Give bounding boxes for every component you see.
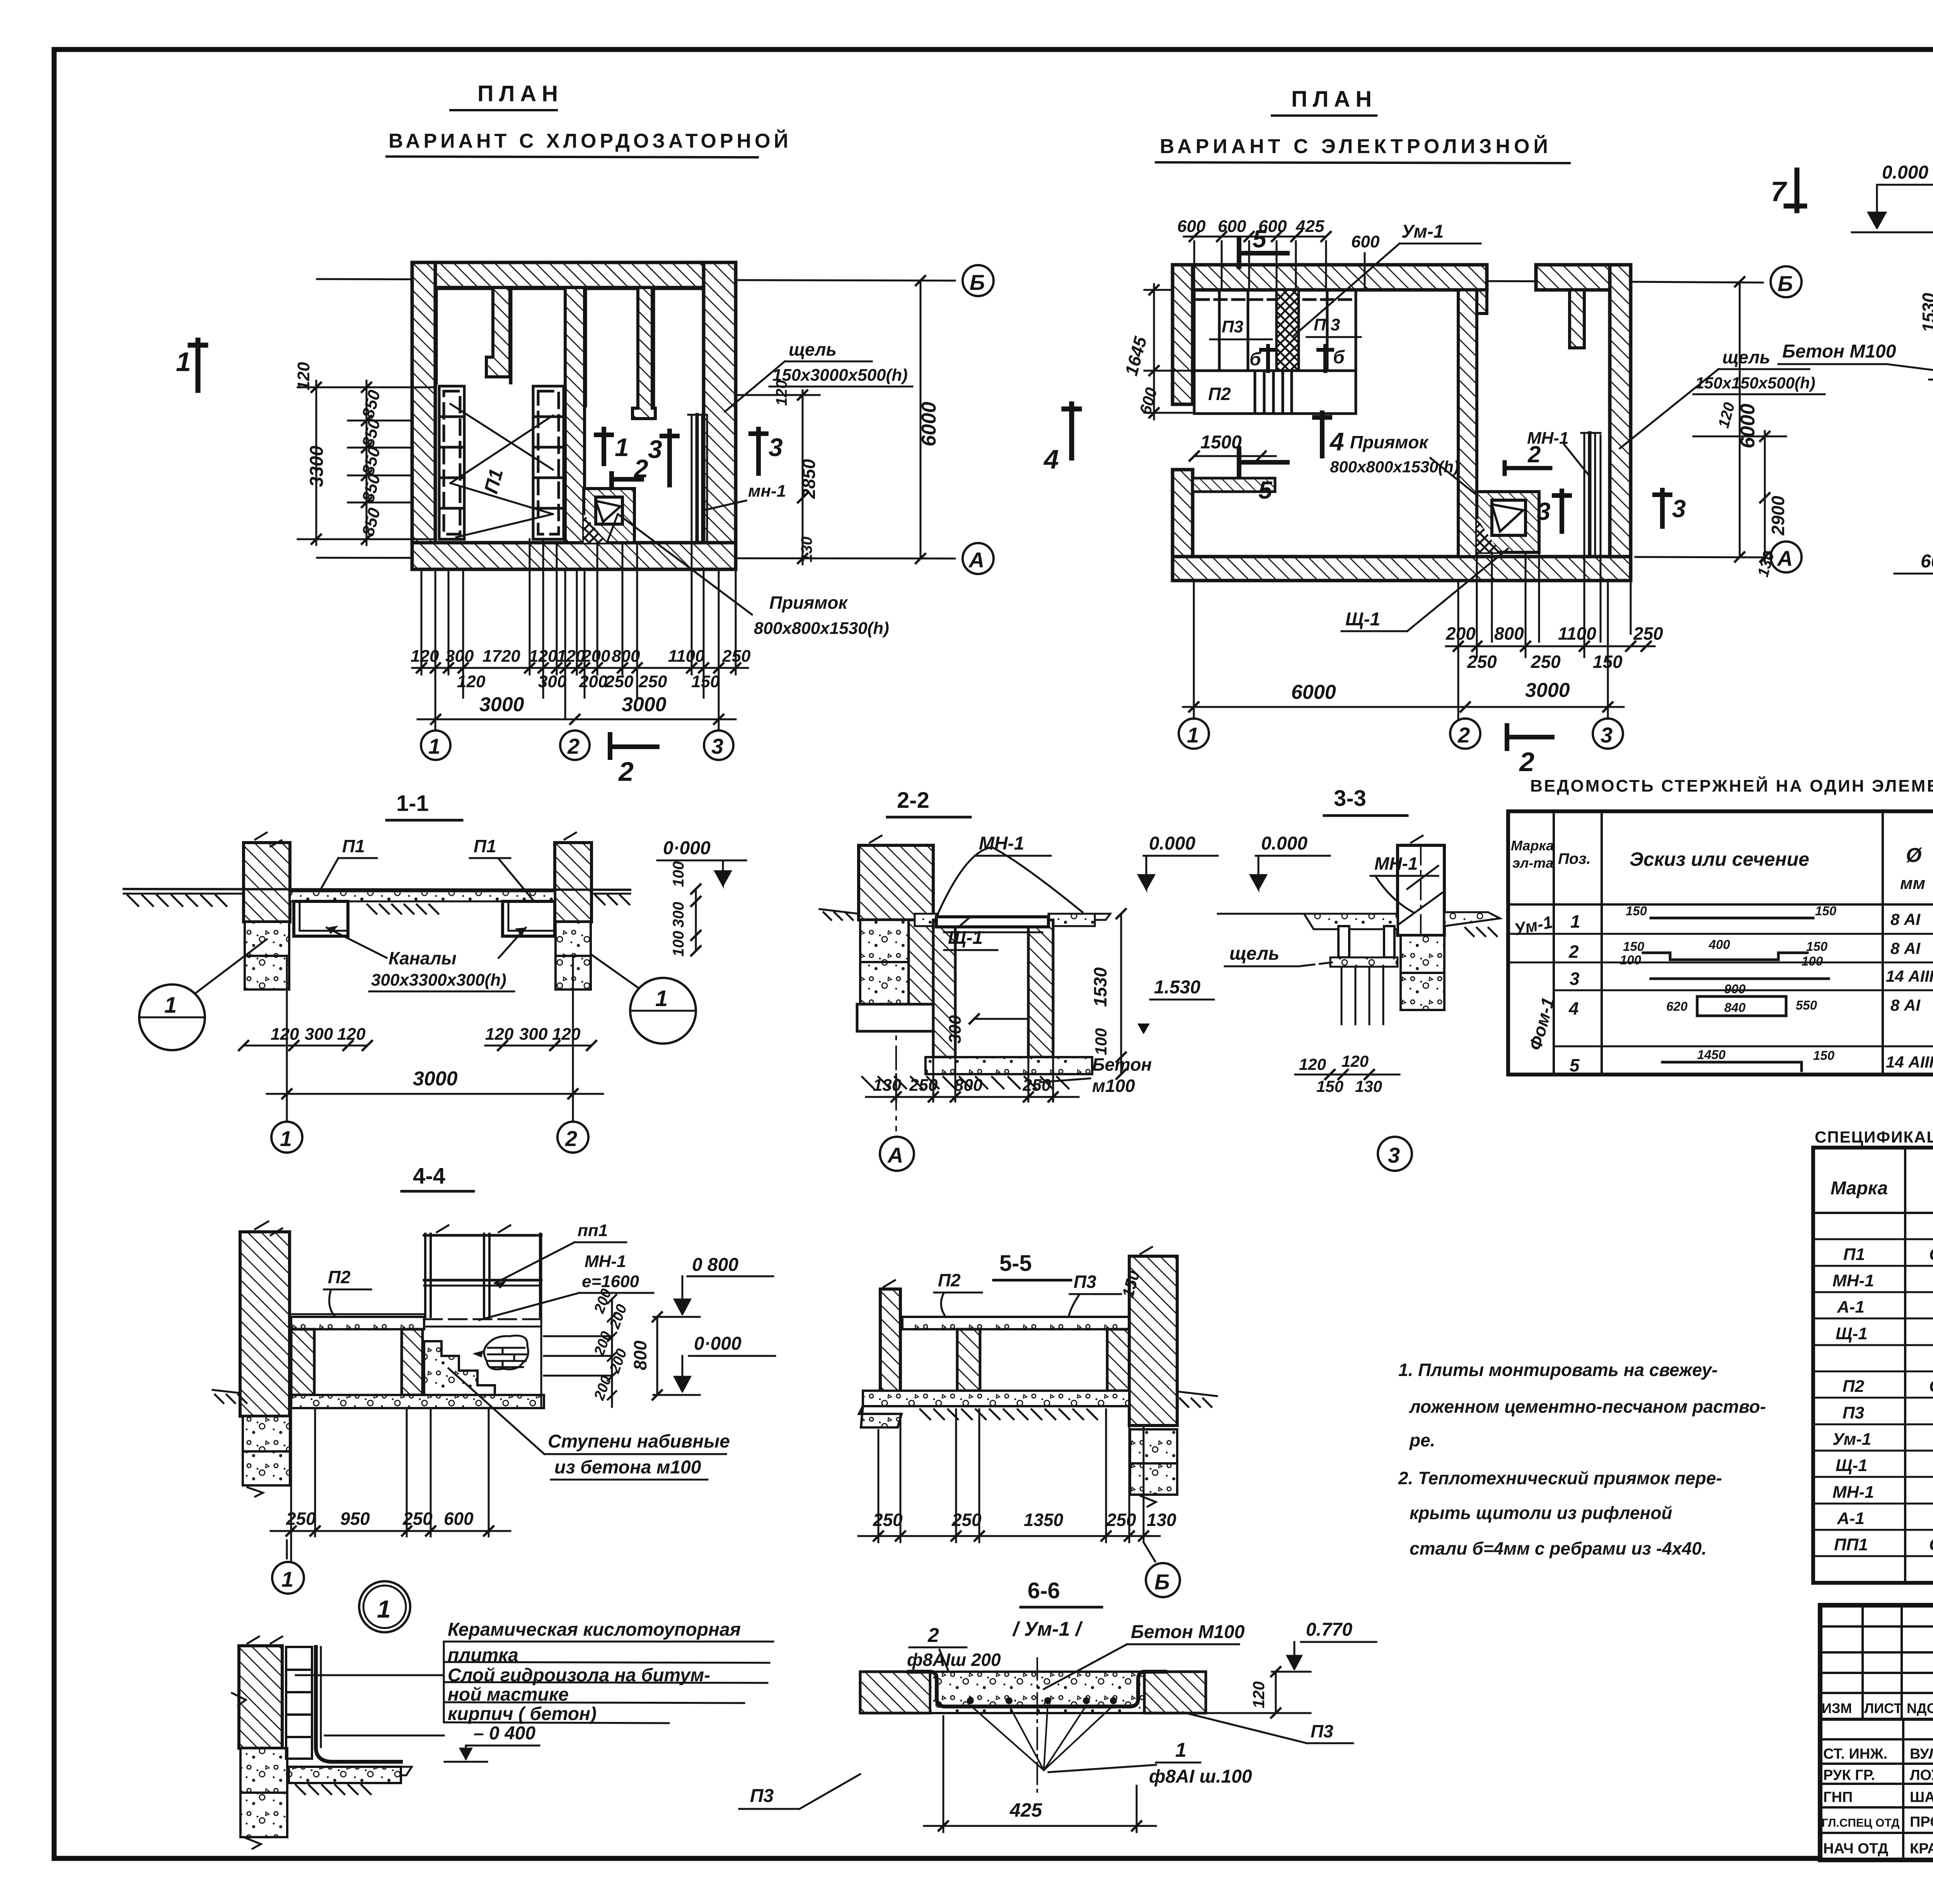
- top dims plan2: [1177, 217, 1380, 251]
- section mark 1 left outside: [583, 336, 584, 337]
- svg-text:ф8АIш 200: ф8АIш 200: [907, 1650, 1001, 1670]
- detail bubble left: [139, 984, 205, 1050]
- wall bottom band: [412, 543, 736, 569]
- partition tooth A: [486, 288, 510, 377]
- axis circle 3: [1378, 1137, 1412, 1171]
- dim numbers row2: [457, 672, 720, 691]
- svg-text:120: 120: [529, 647, 557, 666]
- sketches: [1643, 918, 1829, 1071]
- 2 section flag below plan2: [1507, 725, 1552, 749]
- svg-text:130: 130: [1355, 1077, 1382, 1095]
- svg-text:150: 150: [1593, 652, 1623, 672]
- wall right: [704, 262, 736, 569]
- svg-text:600: 600: [1218, 217, 1246, 236]
- svg-text:120: 120: [1299, 1055, 1326, 1073]
- svg-text:Ум-1: Ум-1: [1832, 1430, 1871, 1449]
- right big wall: [1129, 1256, 1177, 1425]
- svg-text:300: 300: [305, 1025, 333, 1044]
- floor slab: [289, 1767, 401, 1783]
- svg-text:120: 120: [1249, 1681, 1268, 1708]
- left wall concrete below: [243, 1416, 290, 1451]
- svg-text:2: 2: [618, 756, 634, 787]
- svg-text:Бетон: Бетон: [1092, 1054, 1152, 1075]
- svg-text:П 3: П 3: [1314, 315, 1340, 334]
- svg-text:б: б: [1333, 347, 1345, 368]
- left pier inner strip: [909, 920, 933, 1004]
- svg-text:ПП1: ПП1: [1834, 1535, 1868, 1554]
- wall top band: [412, 262, 736, 288]
- 3000 dim: [267, 956, 603, 1121]
- svg-text:1. Плиты монтировать на све: 1. Плиты монтировать на свежеу-: [1398, 1360, 1718, 1380]
- section flag 3 left: [662, 431, 677, 485]
- left dim extension lines: [298, 381, 435, 545]
- canal box left: [294, 901, 348, 936]
- svg-text:ГНП: ГНП: [1823, 1789, 1853, 1805]
- right wall concrete below: [1130, 1429, 1177, 1463]
- axis circle 1: [286, 1540, 288, 1558]
- svg-text:0.770: 0.770: [1306, 1620, 1352, 1640]
- svg-text:1100: 1100: [1558, 623, 1596, 644]
- axis circle 2: [560, 731, 590, 760]
- МН-1 channel lines: [688, 415, 707, 543]
- svg-text:стали б=4мм с ребрами из -: стали б=4мм с ребрами из -4х40.: [1410, 1538, 1706, 1558]
- svg-text:ре.: ре.: [1409, 1430, 1435, 1450]
- svg-text:100: 100: [1802, 954, 1823, 968]
- svg-text:0 800: 0 800: [692, 1255, 738, 1275]
- щель box: [1338, 926, 1349, 957]
- svg-text:из бетона м100: из бетона м100: [554, 1457, 701, 1478]
- svg-text:ВУЛЬФ: ВУЛЬФ: [1910, 1746, 1933, 1762]
- svg-text:14 АIII: 14 АIII: [1886, 1053, 1933, 1071]
- left pier upper: [859, 845, 933, 920]
- svg-text:800х800х1530(h): 800х800х1530(h): [754, 619, 889, 638]
- svg-text:Щ-1: Щ-1: [1836, 1324, 1868, 1343]
- priyamok square plan2: [1477, 492, 1539, 552]
- svg-text:3: 3: [1570, 969, 1580, 989]
- svg-text:2: 2: [633, 454, 648, 483]
- slab left hatched part: [860, 1672, 930, 1713]
- svg-text:Приямок: Приямок: [1350, 432, 1429, 452]
- dims 120/2900/130 right of plan2: [1764, 431, 1766, 562]
- wall hatched: [239, 1646, 282, 1748]
- svg-text:Бетон М100: Бетон М100: [1131, 1622, 1245, 1642]
- svg-text:120: 120: [411, 647, 439, 666]
- svg-text:150: 150: [691, 672, 720, 691]
- svg-text:100: 100: [670, 931, 687, 957]
- svg-text:щель: щель: [789, 339, 837, 359]
- svg-text:ПЛАН: ПЛАН: [1291, 87, 1377, 112]
- svg-text:Серия ИС-01-04 вып 2: Серия ИС-01-04 вып 2: [1929, 1245, 1933, 1264]
- svg-text:Марка: Марка: [1511, 838, 1554, 853]
- svg-text:Ум-1: Ум-1: [1401, 221, 1444, 242]
- wall concrete below: [240, 1748, 287, 1793]
- svg-text:2: 2: [1568, 942, 1579, 962]
- svg-text:800: 800: [954, 1076, 983, 1095]
- svg-text:300: 300: [445, 647, 474, 666]
- svg-text:П1: П1: [342, 836, 365, 856]
- svg-text:А-1: А-1: [1837, 1509, 1865, 1528]
- svg-text:0.000: 0.000: [1149, 833, 1195, 854]
- Ум-1 monolith crosshatched cell: [1277, 290, 1299, 371]
- svg-text:Серия ИС-01-04 вып 2: Серия ИС-01-04 вып 2: [1929, 1377, 1933, 1396]
- svg-text:П3: П3: [1311, 1721, 1333, 1741]
- 5 section flag lower: [1239, 448, 1287, 475]
- bottom slab: [926, 1057, 1092, 1074]
- cells box top-left: [1194, 290, 1356, 371]
- left wall upper: [1173, 265, 1193, 404]
- brick lining courses: [286, 1647, 312, 1759]
- svg-text:130: 130: [1147, 1510, 1176, 1530]
- svg-text:3-3: 3-3: [1334, 786, 1366, 811]
- svg-text:2. Теплотехнический приямок: 2. Теплотехнический приямок пере-: [1398, 1468, 1722, 1488]
- svg-text:СПЕЦИФИКАЦИЯ ЭЛЕМЕНТОВ К МАРКИ: СПЕЦИФИКАЦИЯ ЭЛЕМЕНТОВ К МАРКИРОВОЧНОЙ С…: [1815, 1127, 1933, 1146]
- 4 section flag inside: [1314, 413, 1330, 456]
- svg-text:300: 300: [946, 1015, 965, 1044]
- svg-text:200: 200: [579, 672, 608, 691]
- svg-text:П2: П2: [328, 1267, 351, 1287]
- svg-text:МН-1: МН-1: [585, 1252, 626, 1271]
- svg-text:Ø: Ø: [1906, 844, 1923, 867]
- svg-text:мн-1: мн-1: [748, 482, 786, 501]
- svg-text:120: 120: [1342, 1052, 1369, 1070]
- railing posts ПП1: [424, 1234, 541, 1317]
- svg-text:Бетон М100: Бетон М100: [1782, 341, 1896, 362]
- wall left: [412, 262, 435, 569]
- floor strips: [915, 914, 938, 926]
- svg-text:П3: П3: [1074, 1272, 1096, 1292]
- axis line Б horizontal: [1630, 282, 1763, 283]
- svg-text:600: 600: [1177, 217, 1206, 236]
- svg-text:Керамическая кислотоупорная: Керамическая кислотоупорная: [448, 1620, 741, 1640]
- svg-text:МН-1: МН-1: [979, 833, 1024, 854]
- МН-1 mound curve: [938, 847, 1082, 914]
- svg-text:ЛОУЦКЕР: ЛОУЦКЕР: [1910, 1767, 1933, 1783]
- svg-text:8 АI: 8 АI: [1890, 996, 1921, 1014]
- svg-text:А: А: [887, 1143, 903, 1167]
- svg-text:А-1: А-1: [1837, 1298, 1865, 1316]
- axis circle 3: [704, 731, 733, 760]
- svg-text:2: 2: [1519, 747, 1534, 777]
- 6-6 center dash-dot line: [1036, 1658, 1038, 1793]
- svg-text:300: 300: [538, 672, 567, 691]
- axis circles: [271, 1122, 302, 1153]
- svg-text:Щ-1: Щ-1: [1836, 1456, 1868, 1475]
- fan leaders: [970, 1705, 1113, 1770]
- title plan 2: [1156, 87, 1570, 163]
- svg-text:ЛИСТ: ЛИСТ: [1864, 1700, 1902, 1716]
- svg-text:П2: П2: [938, 1270, 961, 1290]
- П2 room and stair: [1194, 371, 1356, 414]
- double circle detail 1: [359, 1581, 410, 1632]
- svg-text:3: 3: [711, 734, 723, 758]
- axis circle Б plan2: [1771, 266, 1802, 297]
- svg-text:3: 3: [1388, 1143, 1400, 1167]
- top wall band right chunk: [1536, 265, 1631, 290]
- svg-text:1: 1: [428, 734, 440, 758]
- svg-text:ВАРИАНТ С ХЛОРДОЗАТОРНОЙ: ВАРИАНТ С ХЛОРДОЗАТОРНОЙ: [389, 129, 792, 152]
- svg-text:120: 120: [552, 1025, 581, 1044]
- axis line А horizontal: [317, 558, 955, 559]
- floor right strip: [1444, 912, 1500, 926]
- lower slab 0.000: [863, 1391, 1129, 1406]
- svg-text:эл-та: эл-та: [1512, 855, 1553, 871]
- svg-text:Б: Б: [1154, 1570, 1170, 1594]
- svg-text:150: 150: [1813, 1048, 1835, 1063]
- svg-text:м100: м100: [1092, 1076, 1135, 1096]
- signature rows: [1822, 1746, 1933, 1857]
- svg-text:2: 2: [1527, 441, 1541, 467]
- svg-text:щель: щель: [1722, 347, 1770, 367]
- svg-text:600: 600: [1351, 232, 1380, 251]
- left wall: [880, 1289, 900, 1396]
- svg-text:250: 250: [605, 672, 634, 691]
- svg-text:Марка: Марка: [1831, 1178, 1888, 1199]
- svg-text:Б: Б: [1778, 271, 1793, 296]
- svg-text:130: 130: [798, 536, 815, 562]
- middle pier: [957, 1329, 980, 1391]
- svg-text:Серия 1.459-1 вып.2: Серия 1.459-1 вып.2: [1929, 1535, 1933, 1554]
- svg-text:Поз.: Поз.: [1558, 850, 1591, 867]
- svg-text:Щ-1: Щ-1: [948, 928, 983, 948]
- svg-text:П1: П1: [474, 836, 496, 856]
- diameters: [1886, 910, 1933, 1071]
- dims 4-4 below: [271, 1408, 510, 1536]
- svg-text:8 АI: 8 АI: [1890, 910, 1921, 928]
- svg-text:150: 150: [1806, 939, 1828, 954]
- upper floor slab 0.800: [291, 1317, 424, 1329]
- svg-text:0.000: 0.000: [1882, 162, 1928, 183]
- svg-text:200: 200: [581, 647, 610, 666]
- svg-text:950: 950: [340, 1509, 370, 1529]
- svg-text:мм: мм: [1900, 874, 1925, 893]
- label rows: [448, 1620, 741, 1724]
- top band end stub down: [1460, 290, 1487, 313]
- svg-text:14 АIII: 14 АIII: [1886, 967, 1933, 985]
- svg-text:8 АI: 8 АI: [1890, 939, 1921, 957]
- svg-text:120: 120: [271, 1025, 299, 1044]
- wall middle (axis 2): [565, 288, 585, 543]
- svg-text:150х150х500(h): 150х150х500(h): [1695, 374, 1815, 392]
- rebar dots in pan: [967, 1697, 1117, 1704]
- svg-text:900: 900: [1724, 982, 1746, 996]
- svg-text:250: 250: [402, 1509, 433, 1529]
- svg-text:3: 3: [1537, 497, 1551, 525]
- svg-text:1100: 1100: [668, 647, 705, 666]
- svg-text:100: 100: [1092, 1028, 1110, 1055]
- svg-text:120: 120: [294, 362, 313, 390]
- middle wall axis2: [1458, 290, 1477, 557]
- floor left strip: [1304, 914, 1398, 929]
- svg-text:1: 1: [281, 1567, 293, 1591]
- svg-text:1-1: 1-1: [396, 791, 429, 816]
- svg-text:П3: П3: [750, 1786, 774, 1806]
- svg-text:250: 250: [1022, 1076, 1051, 1095]
- svg-text:250: 250: [951, 1510, 982, 1530]
- svg-text:6000: 6000: [1737, 404, 1759, 448]
- concrete below wall: [1401, 935, 1444, 973]
- svg-text:0·000: 0·000: [694, 1333, 741, 1354]
- svg-text:7: 7: [1771, 176, 1787, 207]
- svg-text:2: 2: [927, 1624, 939, 1647]
- left pier: [244, 843, 290, 922]
- section mark 7 left: [1786, 170, 1805, 211]
- svg-text:840: 840: [1724, 1000, 1746, 1015]
- slab middle concrete: [930, 1672, 1144, 1713]
- svg-text:2-2: 2-2: [897, 788, 929, 813]
- svg-text:П3: П3: [1222, 317, 1243, 336]
- 425 dim: [924, 1716, 1156, 1832]
- svg-text:1530: 1530: [1090, 967, 1110, 1007]
- svg-text:ГЛ.СПЕЦ ОТД: ГЛ.СПЕЦ ОТД: [1822, 1817, 1899, 1829]
- 120 dim: [1275, 1672, 1277, 1713]
- svg-text:130: 130: [873, 1076, 902, 1095]
- svg-text:1.530: 1.530: [1154, 977, 1200, 998]
- svg-text:150х3000х500(h): 150х3000х500(h): [772, 366, 908, 385]
- svg-text:3: 3: [769, 433, 783, 462]
- svg-text:А: А: [968, 548, 984, 572]
- svg-text:СТ. ИНЖ.: СТ. ИНЖ.: [1823, 1746, 1887, 1762]
- section flag 2 inside plan: [612, 473, 642, 485]
- steel pan Щ profile: [909, 1672, 1165, 1706]
- lower floor slab 0.000: [291, 1395, 544, 1408]
- svg-text:е=1600: е=1600: [582, 1272, 639, 1291]
- pier left: [291, 1329, 314, 1395]
- bottom extension lines from walls: [421, 539, 736, 731]
- cell outline right room: [585, 288, 703, 406]
- svg-text:б: б: [1249, 349, 1261, 370]
- svg-text:150: 150: [1316, 1077, 1343, 1095]
- svg-text:6000: 6000: [918, 402, 940, 446]
- left tall wall: [240, 1232, 290, 1416]
- svg-text:0·000: 0·000: [663, 838, 711, 858]
- svg-text:/ Ум-1 /: / Ум-1 /: [1012, 1618, 1083, 1640]
- svg-text:МН-1: МН-1: [1374, 853, 1418, 874]
- svg-text:620: 620: [1666, 999, 1688, 1013]
- svg-text:2850: 2850: [799, 459, 819, 499]
- dims 3-3: [1299, 1052, 1382, 1095]
- svg-text:крыть щитоли из рифленой: крыть щитоли из рифленой: [1410, 1503, 1672, 1523]
- ground left: [213, 1390, 240, 1393]
- svg-text:П1: П1: [1843, 1245, 1865, 1264]
- svg-text:Б: Б: [970, 270, 985, 295]
- svg-text:600: 600: [444, 1509, 474, 1529]
- leader lines to labels: [296, 1674, 444, 1676]
- axis dashed line: [895, 845, 897, 1131]
- 800 dim rotated: [656, 1317, 658, 1395]
- top right stub down: [1570, 290, 1584, 348]
- ground line left: [820, 909, 859, 914]
- svg-text:МН-1: МН-1: [1832, 1271, 1874, 1290]
- svg-text:ШАПИРО: ШАПИРО: [1910, 1789, 1933, 1805]
- interior partition horizontal lower-left: [1193, 478, 1275, 492]
- svg-text:250: 250: [722, 647, 751, 666]
- svg-text:5: 5: [1570, 1055, 1580, 1075]
- bottom dims 2-2: [873, 1076, 1051, 1095]
- svg-text:800х800х1530(h): 800х800х1530(h): [1330, 458, 1459, 476]
- svg-text:3000: 3000: [479, 693, 524, 716]
- П1 leader crossing lines: [450, 404, 553, 537]
- detail bubble right: [630, 978, 696, 1044]
- svg-text:250: 250: [1633, 623, 1663, 644]
- svg-text:2900: 2900: [1768, 496, 1788, 536]
- svg-text:1350: 1350: [1024, 1510, 1064, 1530]
- svg-text:250: 250: [286, 1509, 316, 1529]
- svg-text:3: 3: [648, 435, 662, 463]
- svg-text:1: 1: [615, 433, 629, 462]
- bottom dims plan2 row1: [1445, 623, 1663, 644]
- svg-text:100: 100: [670, 861, 687, 887]
- svg-text:ВАРИАНТ С ЭЛЕКТРОЛИЗНОЙ: ВАРИАНТ С ЭЛЕКТРОЛИЗНОЙ: [1160, 135, 1552, 158]
- svg-text:120: 120: [557, 647, 585, 666]
- svg-text:ВЕДОМОСТЬ СТЕРЖНЕЙ НА ОДИН ЭЛЕ: ВЕДОМОСТЬ СТЕРЖНЕЙ НА ОДИН ЭЛЕМЕНТ: [1530, 776, 1933, 795]
- slab right hatched part: [1144, 1672, 1206, 1713]
- dim line row3 3000+3000: [418, 719, 736, 720]
- svg-text:1: 1: [1175, 1739, 1186, 1761]
- Щ-1 shaft walls: [933, 920, 955, 1057]
- svg-text:ф8АI ш.100: ф8АI ш.100: [1149, 1766, 1252, 1787]
- ground hatch below: [862, 1077, 1069, 1088]
- axis circle А 2-2: [880, 1137, 914, 1171]
- svg-text:2: 2: [565, 1126, 577, 1151]
- svg-text:NДОКУМ: NДОКУМ: [1907, 1700, 1933, 1716]
- pos numbers: [1568, 911, 1580, 1075]
- svg-text:425: 425: [1009, 1799, 1043, 1821]
- svg-text:4: 4: [1043, 444, 1059, 474]
- svg-text:1530: 1530: [1919, 293, 1933, 332]
- partition tooth B: [632, 288, 655, 419]
- svg-text:300: 300: [670, 902, 687, 928]
- svg-text:П2: П2: [1208, 384, 1231, 404]
- header row: [1822, 1700, 1933, 1716]
- svg-text:А: А: [1776, 546, 1793, 571]
- svg-text:200: 200: [1445, 623, 1476, 644]
- svg-text:800: 800: [1494, 623, 1524, 644]
- svg-text:550: 550: [1796, 998, 1817, 1012]
- axis circle 1 of 4-4: [290, 1536, 292, 1562]
- level line: [1852, 232, 1933, 233]
- ground hatch: [128, 895, 227, 906]
- svg-text:3000: 3000: [413, 1068, 458, 1090]
- pier middle: [402, 1329, 423, 1395]
- svg-text:5-5: 5-5: [999, 1251, 1032, 1276]
- svg-text:Каналы: Каналы: [389, 948, 457, 968]
- ground right of wall: [1177, 1391, 1217, 1396]
- svg-text:120: 120: [457, 672, 486, 691]
- left dim ticks: [312, 383, 371, 544]
- svg-text:300: 300: [519, 1025, 548, 1044]
- floor slab 0.800: [902, 1317, 1129, 1329]
- svg-text:150: 150: [1626, 904, 1647, 918]
- Б circle 5-5: [1144, 1542, 1155, 1562]
- 200 dims stack: [611, 1299, 613, 1407]
- svg-text:ложенном цементно-песчаном р: ложенном цементно-песчаном раство-: [1409, 1396, 1766, 1417]
- axis circle А plan2: [1771, 542, 1802, 572]
- bottom dims plan2 row2: [1467, 652, 1623, 672]
- svg-text:МН-1: МН-1: [1832, 1483, 1874, 1502]
- dim numbers row1: [411, 647, 751, 666]
- 5 section flag upper: [1239, 240, 1287, 267]
- svg-text:3000: 3000: [622, 693, 666, 716]
- svg-text:1500: 1500: [1200, 432, 1242, 453]
- left pier concrete: [860, 920, 909, 962]
- svg-text:Ступени набивные: Ступени набивные: [548, 1431, 730, 1452]
- dims under piers: [271, 1025, 581, 1044]
- svg-text:4: 4: [1568, 998, 1579, 1018]
- svg-text:2: 2: [1457, 723, 1470, 747]
- svg-text:800: 800: [630, 1340, 650, 1370]
- dims 5-5: [858, 1409, 1160, 1542]
- footing: [857, 1004, 933, 1031]
